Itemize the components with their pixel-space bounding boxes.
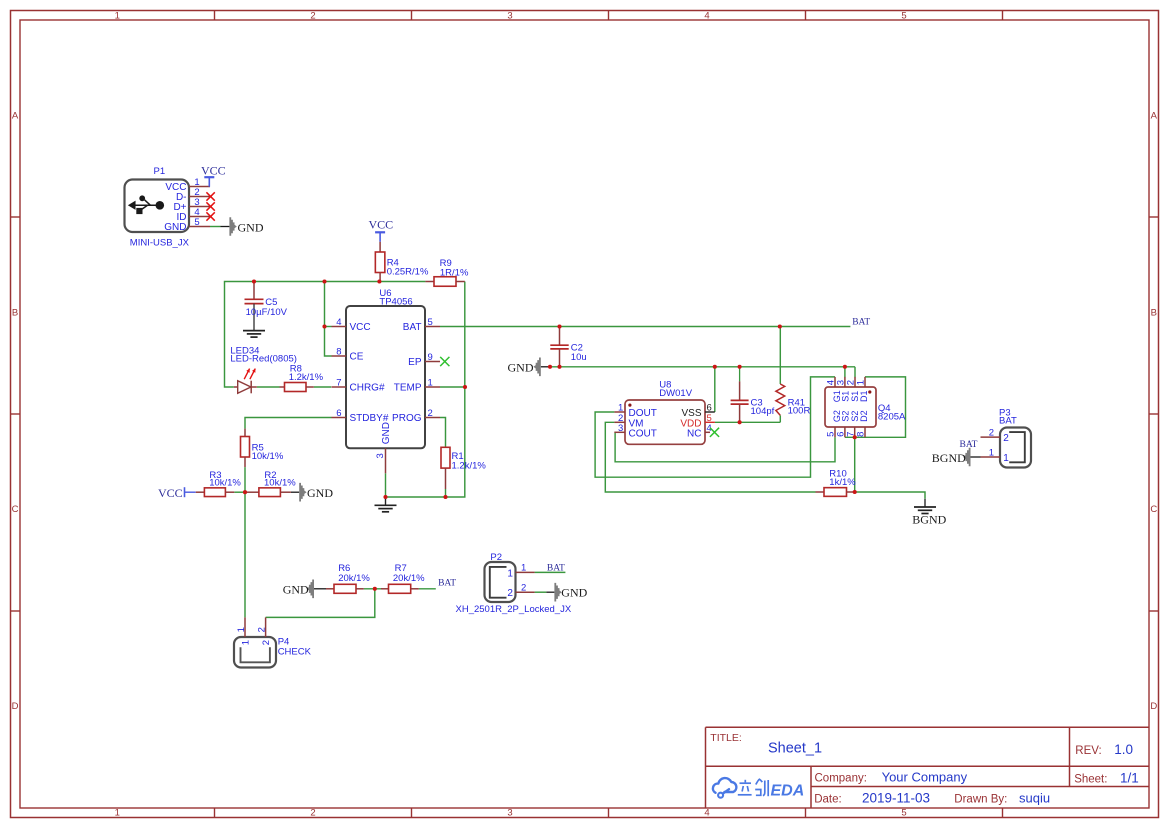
svg-text:1k/1%: 1k/1% (829, 477, 856, 488)
svg-text:104pf: 104pf (751, 406, 775, 417)
svg-text:GND: GND (381, 422, 392, 444)
svg-text:CHECK: CHECK (278, 646, 312, 657)
svg-text:2: 2 (257, 627, 268, 632)
svg-text:3: 3 (507, 808, 512, 819)
svg-text:B: B (1151, 307, 1157, 318)
svg-text:1: 1 (1003, 453, 1009, 464)
svg-text:6: 6 (336, 408, 341, 419)
svg-text:NC: NC (687, 429, 701, 440)
svg-text:Date:: Date: (814, 794, 842, 806)
svg-text:1R/1%: 1R/1% (440, 267, 469, 278)
svg-text:1: 1 (240, 640, 251, 645)
svg-text:Drawn By:: Drawn By: (954, 794, 1007, 806)
svg-text:suqiu: suqiu (1019, 791, 1050, 806)
svg-text:Company:: Company: (815, 772, 867, 784)
svg-text:D2: D2 (859, 410, 869, 422)
svg-text:3: 3 (507, 10, 512, 21)
svg-text:2: 2 (310, 808, 315, 819)
svg-text:1: 1 (115, 808, 120, 819)
svg-text:2: 2 (428, 408, 433, 419)
svg-text:1.2k/1%: 1.2k/1% (289, 372, 324, 383)
svg-text:BGND: BGND (932, 451, 966, 465)
svg-text:8: 8 (856, 432, 867, 437)
svg-text:D: D (12, 701, 19, 712)
svg-text:LED-Red(0805): LED-Red(0805) (230, 353, 297, 364)
svg-text:2: 2 (1003, 433, 1009, 444)
svg-text:2: 2 (521, 582, 526, 593)
svg-text:5: 5 (428, 317, 433, 328)
svg-text:8: 8 (336, 346, 341, 357)
svg-text:1.0: 1.0 (1114, 742, 1133, 757)
svg-text:BGND: BGND (912, 512, 946, 526)
svg-text:3: 3 (618, 423, 623, 434)
svg-text:TEMP: TEMP (394, 383, 422, 394)
svg-text:5: 5 (901, 808, 906, 819)
svg-text:2: 2 (310, 10, 315, 21)
svg-text:1: 1 (521, 563, 526, 574)
svg-text:100R: 100R (788, 406, 811, 417)
svg-text:GND: GND (283, 582, 309, 596)
svg-text:4: 4 (704, 10, 709, 21)
svg-text:1: 1 (115, 10, 120, 21)
svg-text:9: 9 (428, 352, 433, 363)
svg-text:7: 7 (336, 377, 341, 388)
svg-text:Sheet:: Sheet: (1074, 774, 1107, 786)
svg-text:1.2k/1%: 1.2k/1% (452, 461, 487, 472)
svg-text:10k/1%: 10k/1% (209, 478, 241, 489)
svg-text:2: 2 (989, 428, 994, 439)
svg-text:1: 1 (428, 377, 433, 388)
svg-text:1: 1 (507, 568, 513, 579)
svg-text:REV:: REV: (1075, 745, 1101, 757)
svg-text:1: 1 (989, 447, 994, 458)
svg-text:COUT: COUT (629, 429, 657, 440)
svg-text:4: 4 (704, 808, 709, 819)
svg-text:BAT: BAT (960, 440, 978, 450)
svg-text:DW01V: DW01V (659, 388, 692, 399)
svg-text:VCC: VCC (158, 486, 183, 500)
svg-text:MINI-USB_JX: MINI-USB_JX (130, 238, 190, 249)
svg-text:C: C (12, 504, 19, 515)
svg-text:TP4056: TP4056 (379, 296, 412, 307)
svg-text:10k/1%: 10k/1% (252, 451, 284, 462)
svg-text:3: 3 (375, 453, 386, 458)
svg-text:1: 1 (856, 380, 867, 385)
svg-text:5: 5 (901, 10, 906, 21)
svg-text:BAT: BAT (547, 564, 565, 574)
svg-text:BAT: BAT (852, 317, 870, 327)
svg-text:GND: GND (164, 222, 186, 233)
svg-text:0.25R/1%: 0.25R/1% (387, 266, 429, 277)
svg-text:20k/1%: 20k/1% (393, 573, 425, 584)
svg-text:GND: GND (561, 586, 587, 600)
svg-text:CHRG#: CHRG# (350, 383, 385, 394)
svg-text:VCC: VCC (201, 164, 226, 178)
svg-text:BAT: BAT (438, 579, 456, 589)
svg-text:B: B (12, 307, 18, 318)
svg-text:BAT: BAT (999, 416, 1017, 427)
svg-text:2: 2 (261, 640, 272, 645)
svg-text:GND: GND (307, 486, 333, 500)
svg-text:4: 4 (336, 317, 341, 328)
svg-text:20k/1%: 20k/1% (338, 573, 370, 584)
svg-text:P1: P1 (154, 166, 166, 177)
svg-text:EP: EP (408, 357, 422, 368)
svg-text:PROG: PROG (392, 413, 422, 424)
svg-text:D: D (1150, 701, 1157, 712)
svg-text:10µF/10V: 10µF/10V (246, 307, 288, 318)
svg-text:2019-11-03: 2019-11-03 (862, 791, 930, 806)
svg-text:XH_2501R_2P_Locked_JX: XH_2501R_2P_Locked_JX (456, 604, 572, 615)
svg-text:P2: P2 (490, 552, 502, 563)
svg-text:CE: CE (350, 352, 364, 363)
svg-text:TITLE:: TITLE: (710, 732, 742, 744)
svg-text:EDA: EDA (771, 783, 805, 800)
svg-text:2: 2 (507, 588, 513, 599)
svg-text:8205A: 8205A (878, 411, 906, 422)
svg-text:1: 1 (236, 627, 247, 632)
svg-text:GND: GND (238, 220, 264, 234)
svg-text:10u: 10u (571, 352, 587, 363)
svg-text:GND: GND (508, 360, 534, 374)
svg-text:VCC: VCC (369, 218, 394, 232)
svg-text:Sheet_1: Sheet_1 (768, 740, 822, 756)
svg-text:A: A (1151, 111, 1158, 122)
svg-text:5: 5 (194, 217, 199, 228)
svg-text:A: A (12, 111, 19, 122)
svg-text:BAT: BAT (403, 322, 422, 333)
svg-text:10k/1%: 10k/1% (264, 478, 296, 489)
svg-text:1/1: 1/1 (1120, 771, 1139, 786)
svg-text:Your Company: Your Company (882, 769, 968, 784)
svg-text:VCC: VCC (350, 322, 371, 333)
svg-text:C: C (1150, 504, 1157, 515)
svg-text:D1: D1 (859, 390, 869, 402)
